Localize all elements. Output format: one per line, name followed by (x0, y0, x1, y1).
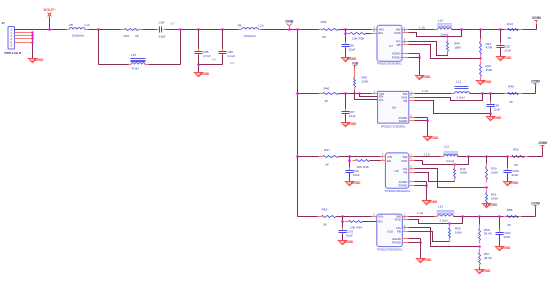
svg-text:FB: FB (403, 99, 407, 103)
ground C95 (496, 57, 504, 61)
svg-text:1V8M: 1V8M (538, 141, 547, 145)
wire U8 FB (415, 101, 491, 114)
wire U9 SW to L12 (415, 156, 444, 158)
svg-text:1000ohm: 1000ohm (244, 34, 257, 38)
resistor R46 2K (505, 93, 508, 95)
wire U8 VOS sense (415, 94, 483, 101)
svg-text:TPS62170DSGRG1: TPS62170DSGRG1 (376, 62, 402, 66)
svg-text:EN: EN (378, 220, 382, 224)
svg-text:DGND: DGND (351, 181, 361, 185)
wire U9 PG (415, 169, 487, 188)
svg-text:DGND: DGND (429, 136, 439, 140)
svg-text:TPS62171YZDRG1: TPS62171YZDRG1 (381, 125, 406, 129)
wire connector gnd bus (32, 33, 34, 59)
svg-text:PGND: PGND (392, 56, 402, 60)
svg-text:DGND: DGND (502, 56, 512, 60)
ground R51b (482, 204, 490, 208)
svg-text:1.1A: 1.1A (419, 26, 425, 30)
node 1V8M output flag (528, 156, 543, 158)
svg-text:DGND: DGND (34, 58, 44, 62)
inductor L13 2.2uH (437, 210, 455, 214)
resistor R56 82.0K (479, 225, 481, 229)
inductor L15 47uH (98, 30, 100, 65)
svg-text:1V2M: 1V2M (531, 202, 540, 206)
resistor R52 2K (509, 156, 513, 158)
resistor R51b 100K (486, 190, 488, 193)
wire U10 FB (409, 232, 450, 242)
svg-text:DGND: DGND (482, 80, 492, 84)
svg-text:VIN: VIN (378, 215, 383, 219)
ground C85 (194, 73, 202, 77)
svg-text:10uF: 10uF (353, 173, 360, 177)
resistor R50 100K (486, 164, 488, 167)
svg-text:100K: 100K (486, 68, 493, 72)
svg-text:R53: R53 (322, 208, 328, 212)
svg-text:J7: J7 (2, 21, 6, 25)
capacitor C102 10uF (499, 217, 501, 233)
ground U10 (416, 259, 424, 263)
resistor R38 10K (345, 30, 347, 34)
svg-text:R58: R58 (507, 208, 513, 212)
svg-text:2V5M: 2V5M (531, 80, 540, 84)
svg-text:U9: U9 (395, 169, 399, 173)
svg-text:1000ohm: 1000ohm (72, 34, 85, 38)
capacitor C84 33pF (159, 27, 161, 33)
svg-text:PG: PG (379, 98, 384, 102)
svg-text:10uF: 10uF (504, 235, 511, 239)
wire L11 to output (470, 93, 536, 95)
svg-text:TPS62170DSGRG1: TPS62170DSGRG1 (385, 189, 411, 193)
svg-text:DGND: DGND (347, 122, 357, 126)
svg-text:33pF: 33pF (158, 35, 165, 39)
wire U8 PGND AGND (415, 117, 428, 119)
svg-text:FB: FB (238, 24, 242, 28)
svg-text:2.2uH: 2.2uH (439, 219, 447, 223)
wire U7 FB (409, 45, 481, 59)
svg-text:R52: R52 (513, 148, 519, 152)
capacitor C101 10uF (342, 222, 344, 231)
op-amp U10 TPS62170DSGRG1 (377, 214, 403, 247)
resistor R49 100K (453, 163, 456, 166)
wire U7 AGND PGND (409, 53, 420, 55)
node 1V2M output flag (522, 216, 536, 218)
node 3V3M output flag (523, 29, 537, 31)
wire U10 VOS sense (409, 217, 463, 224)
svg-text:L10: L10 (438, 18, 443, 22)
svg-text:100K: 100K (460, 171, 467, 175)
svg-text:1.1A: 1.1A (423, 152, 429, 156)
svg-text:22uF: 22uF (512, 173, 519, 177)
wire row4 rail (298, 216, 322, 218)
svg-text:10uF: 10uF (346, 233, 353, 237)
svg-text:100K: 100K (455, 231, 462, 235)
svg-text:C84: C84 (159, 21, 165, 25)
resistor R45 100K (354, 69, 356, 77)
svg-text:100K: 100K (362, 79, 369, 83)
svg-text:TPS62170DSGRG1: TPS62170DSGRG1 (377, 247, 403, 251)
ground C98 (486, 117, 494, 121)
svg-text:AGND: AGND (399, 119, 409, 123)
svg-text:22uF: 22uF (494, 107, 501, 111)
svg-text:16V: 16V (230, 61, 235, 65)
svg-text:DGND: DGND (344, 240, 354, 244)
inductor L11 2.2uH (455, 86, 469, 88)
svg-text:VOS: VOS (394, 31, 400, 35)
svg-text:2.2uH: 2.2uH (446, 159, 454, 163)
wire R45 to PG (355, 91, 378, 100)
wire row3 rail (298, 156, 323, 158)
svg-text:1.1A: 1.1A (417, 211, 423, 215)
svg-text:FB: FB (403, 170, 407, 174)
svg-text:DGND: DGND (501, 246, 511, 250)
svg-text:VINB: VINB (285, 20, 294, 24)
ground R42 (476, 81, 484, 85)
resistor R41 470K (480, 39, 482, 42)
svg-text:100K: 100K (454, 45, 461, 49)
wire U8 SW to L11 (415, 93, 455, 95)
svg-text:VOS: VOS (401, 159, 407, 163)
resistor R42 100K (480, 61, 482, 65)
svg-text:L14: L14 (84, 23, 89, 27)
node 2V5M output flag (535, 87, 537, 94)
svg-text:DGND: DGND (428, 200, 438, 204)
svg-text:U7: U7 (389, 44, 393, 48)
resistor R53 2K (318, 216, 322, 218)
inductor L16 ferrite bead FB 1000ohm (239, 29, 242, 31)
resistor R48 10K (349, 157, 351, 161)
svg-text:R39: R39 (321, 20, 327, 24)
ground C102 (495, 247, 503, 251)
svg-text:EN: EN (387, 159, 391, 163)
svg-text:DGND: DGND (422, 258, 432, 262)
ground U7 (415, 76, 423, 80)
resistor R40 2K (319, 93, 323, 95)
ground C101 (338, 241, 346, 245)
svg-text:U10: U10 (387, 230, 393, 234)
wire U10 AGND PGND (409, 238, 421, 240)
wire U9 FB (415, 173, 455, 182)
svg-text:PGND: PGND (399, 184, 409, 188)
wire U7 VOS sense (409, 30, 462, 37)
svg-text:VOS: VOS (394, 218, 400, 222)
capacitor C86 0.1uF (221, 28, 224, 31)
svg-text:R47: R47 (324, 148, 330, 152)
wire main input rail (15, 29, 69, 31)
wire EN tie (358, 92, 361, 95)
ground C96 (341, 58, 349, 62)
svg-text:DGND: DGND (200, 72, 210, 76)
wire U10 SW to L13 (409, 216, 438, 218)
resistor R51 2K (121, 29, 125, 31)
ground C97 (341, 123, 349, 127)
ground C100 (503, 182, 511, 186)
ground U8 (423, 137, 431, 141)
wire U9 AGND PGND (415, 181, 427, 183)
wire U9 VOS sense (415, 157, 469, 165)
svg-text:PPD-Link B: PPD-Link B (5, 51, 23, 55)
ground C99 (345, 182, 353, 186)
svg-text:DGND: DGND (509, 181, 519, 185)
resistor R43 2K (505, 29, 508, 31)
svg-text:L11: L11 (456, 80, 461, 84)
svg-text:L13: L13 (438, 205, 443, 209)
wire L13 to output (454, 216, 536, 218)
svg-text:L12: L12 (444, 145, 449, 149)
svg-text:10K R38: 10K R38 (352, 37, 364, 41)
svg-text:82.0K: 82.0K (484, 232, 492, 236)
svg-text:10K R48: 10K R48 (356, 165, 368, 169)
svg-text:0.1uF: 0.1uF (228, 54, 236, 58)
svg-text:R43: R43 (507, 22, 513, 26)
svg-text:47uH: 47uH (131, 67, 138, 71)
resistor R58 2K (504, 216, 507, 218)
svg-text:DOUT~: DOUT~ (44, 8, 58, 12)
svg-text:2.2uH: 2.2uH (456, 96, 464, 100)
svg-text:100K: 100K (491, 196, 498, 200)
svg-text:10uF: 10uF (349, 114, 356, 118)
svg-text:V3B: V3B (352, 61, 359, 65)
capacitor C97 10uF (345, 94, 347, 112)
svg-text:R51: R51 (124, 34, 130, 38)
svg-text:L16: L16 (258, 24, 263, 28)
capacitor C100 22uF (507, 157, 509, 171)
wire U10 PG (409, 228, 480, 247)
svg-text:FB: FB (397, 229, 401, 233)
svg-text:16V: 16V (212, 57, 217, 61)
connector J7 PPD-Link B (8, 27, 15, 50)
svg-text:10uF: 10uF (349, 47, 356, 51)
capacitor C85 4.7uF (198, 30, 200, 52)
svg-text:EN: EN (379, 31, 383, 35)
wire input bus vertical (297, 30, 299, 217)
wire U7 PG (409, 42, 448, 56)
resistor R39 2K (319, 29, 323, 31)
svg-text:AGND: AGND (488, 203, 498, 207)
svg-text:FB: FB (397, 43, 401, 47)
svg-text:38.3K: 38.3K (484, 256, 492, 260)
wire U7 SW to L10 (409, 29, 438, 31)
capacitor C96 10uF (345, 30, 347, 45)
svg-text:U8: U8 (392, 105, 396, 109)
svg-text:DGND: DGND (421, 75, 431, 79)
svg-text:16V: 16V (170, 22, 175, 26)
ground U9 (422, 201, 430, 205)
resistor R55 100K (448, 222, 451, 225)
svg-text:470K: 470K (486, 46, 493, 50)
op-amp U7 TPS62170DSGRG1 (377, 25, 402, 61)
svg-text:R46: R46 (508, 85, 514, 89)
resistor R54 10K (342, 217, 344, 222)
resistor R44 100K (446, 35, 449, 38)
op-amp U8 TPS62170DSGRG1 (378, 91, 409, 123)
svg-text:R40: R40 (324, 86, 330, 90)
resistor R57 38.3K (479, 249, 481, 253)
wire row2 rail (298, 93, 323, 95)
resistor R47 2K (319, 156, 323, 158)
capacitor C95 22uF (500, 30, 502, 46)
svg-text:100K: 100K (491, 171, 498, 175)
ground connector (28, 59, 36, 63)
inductor L10 10uH (437, 23, 452, 27)
svg-text:DGND: DGND (492, 116, 502, 120)
svg-text:FB: FB (69, 23, 73, 27)
connector pin stubs (15, 29, 33, 31)
svg-text:4.7uF: 4.7uF (203, 54, 211, 58)
svg-text:3V3M: 3V3M (532, 16, 541, 20)
inductor L14 ferrite bead FB 1000ohm (67, 29, 69, 31)
wire L10 to output (452, 29, 537, 31)
capacitor C98 22uF (490, 94, 492, 105)
svg-text:PGND: PGND (392, 240, 402, 244)
capacitor C99 10uF (349, 161, 351, 171)
svg-text:1.1A: 1.1A (422, 89, 428, 93)
svg-text:22uF: 22uF (505, 48, 512, 52)
op-amp U9 TPS62170DSGRG1 (385, 153, 408, 188)
wire L12 to output (458, 156, 537, 158)
svg-text:AGND: AGND (481, 269, 491, 273)
svg-text:L15: L15 (131, 53, 136, 57)
inductor L12 2.2uH (443, 151, 458, 155)
ground R57 (475, 270, 483, 274)
